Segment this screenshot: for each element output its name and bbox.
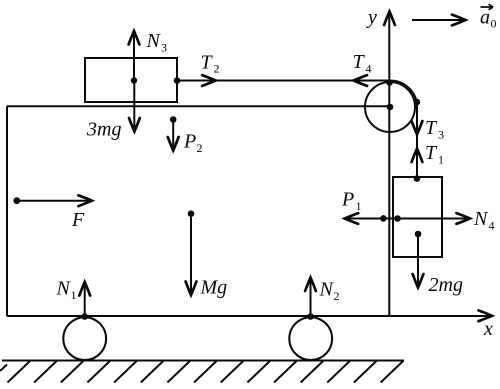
arrowhead P2 [168,137,179,151]
x axis / cart bottom [7,315,489,317]
svg-text:N: N [56,278,72,300]
svg-text:2: 2 [197,141,203,155]
svg-text:2mg: 2mg [429,274,463,296]
svg-text:x: x [483,318,493,340]
rope over pulley (T2-T4) [177,80,389,82]
top block 3mg [85,58,177,102]
svg-text:P: P [183,131,196,153]
force P1-N4 line [346,218,469,220]
dot block2 top [414,175,421,182]
svg-text:2: 2 [214,62,220,76]
svg-text:3mg: 3mg [86,119,121,141]
svg-text:T: T [425,142,438,164]
arrowhead F [78,195,92,206]
force P2 shaft [172,120,174,150]
arrowhead 3mg [129,118,140,132]
cart body [7,106,389,316]
force N3 shaft [133,33,135,81]
dot N2 [307,313,314,320]
force N1 shaft [84,284,86,317]
arrowhead Mg [186,282,197,296]
left wheel [63,317,106,360]
arrowhead T3 [412,121,423,135]
svg-text:0: 0 [491,17,497,31]
force Mg shaft [190,214,192,294]
arrowhead a0 [452,15,466,26]
dot block3 center [131,77,137,83]
arrowhead x axis [479,310,493,321]
arrowhead N3 [129,31,140,45]
hanging block 2mg [393,177,442,257]
svg-text:Mg: Mg [200,277,228,299]
arrowhead N1 [79,282,90,296]
dot T2 [174,77,181,84]
svg-text:y: y [366,7,377,29]
ground hatching [0,361,403,383]
ground [2,360,404,362]
dot pulley top [386,79,393,86]
arrowhead y axis [384,12,395,26]
y axis / cart right edge [388,14,390,316]
svg-text:T: T [425,117,438,139]
force 2mg shaft [417,234,419,286]
a0 vector hat [481,4,494,10]
svg-text:3: 3 [161,41,167,55]
dot P1 wall [380,215,387,222]
svg-text:N: N [146,30,162,52]
dot pulley center [387,104,394,111]
arrowhead T4 [354,75,368,86]
svg-text:N: N [319,279,335,301]
svg-text:2: 2 [334,289,340,303]
arrowhead N4 [457,213,471,224]
arrowhead T1 [412,149,423,163]
arrowhead 2mg [413,274,424,288]
pulley [365,82,415,132]
svg-text:P: P [341,189,354,211]
dot F [13,197,20,204]
rope wrap arc [390,80,417,102]
svg-text:T: T [201,52,214,74]
arrowhead N2 [305,278,316,292]
svg-text:1: 1 [356,199,362,213]
dot N1 [81,313,88,320]
force 3mg shaft [133,81,135,131]
svg-text:3: 3 [438,128,444,142]
svg-text:F: F [71,209,85,231]
right wheel [289,317,332,360]
svg-text:1: 1 [438,153,444,167]
rope T3-T1 [416,102,418,178]
arrowhead T2 [202,75,216,86]
svg-text:4: 4 [366,62,372,76]
dot rope tangent [414,99,421,106]
dot 2mg [415,231,422,238]
svg-text:1: 1 [71,288,77,302]
dot P2 [170,116,177,123]
dot Mg [188,210,195,217]
svg-text:4: 4 [489,219,495,233]
dot N4 block [394,215,401,222]
arrowhead P1 [345,213,359,224]
svg-text:N: N [473,208,489,230]
a0 vector shaft [412,19,462,21]
force N2 shaft [310,279,312,317]
svg-text:T: T [353,51,366,73]
force F shaft [17,200,90,202]
